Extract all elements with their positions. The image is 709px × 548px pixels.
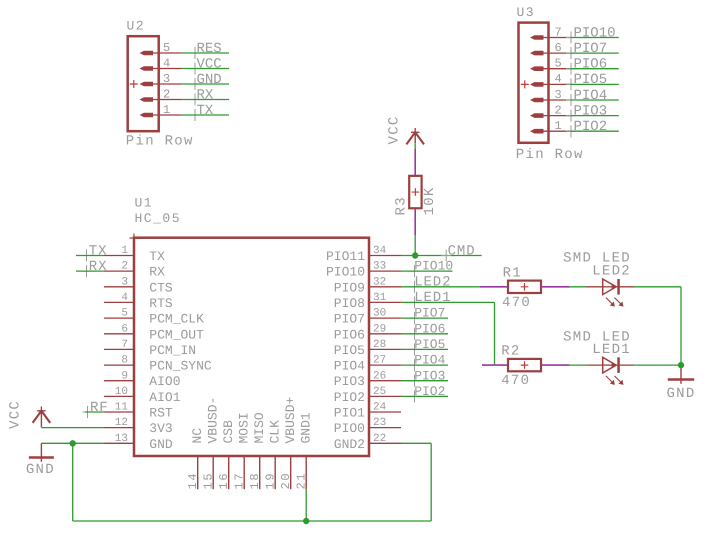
U3 pin 5 — [540, 68, 571, 70]
svg-text:2: 2 — [555, 103, 562, 117]
label cross VCC — [190, 63, 200, 75]
svg-text:9: 9 — [121, 370, 128, 382]
U1 bottom pin 16 — [228, 456, 230, 489]
label cross PIO6 — [566, 63, 576, 75]
net wire PIO5 — [571, 83, 619, 85]
U3 pin 1 — [540, 130, 571, 132]
svg-text:TX: TX — [89, 243, 108, 259]
U2 pin 1 — [150, 114, 181, 116]
svg-text:7: 7 — [121, 339, 128, 351]
net wire PIO4 — [401, 364, 448, 366]
svg-text:33: 33 — [373, 261, 386, 273]
svg-text:PIO7: PIO7 — [414, 306, 445, 321]
label cross PIO10 — [410, 265, 420, 277]
label cross TX — [82, 250, 92, 262]
LED D-LED1 — [602, 364, 618, 366]
U1 right pin 30 — [369, 317, 401, 319]
U1 left pin 7 — [104, 348, 134, 350]
svg-text:CLK: CLK — [268, 420, 283, 444]
U1 bottom pin 14 — [197, 456, 199, 489]
U1 bottom pin 19 — [274, 456, 276, 489]
U1 left pin 5 — [104, 317, 134, 319]
connector U2 — [128, 36, 159, 131]
label cross PIO5 — [410, 343, 420, 355]
wire pin overlap above R3 — [414, 149, 416, 176]
junction left GND — [70, 440, 76, 446]
svg-text:CSB: CSB — [221, 420, 236, 444]
svg-text:6: 6 — [555, 41, 562, 55]
svg-text:20: 20 — [279, 472, 293, 490]
wire pin overlap left of R1 — [480, 286, 508, 288]
svg-text:12: 12 — [115, 417, 128, 429]
svg-text:PCM_OUT: PCM_OUT — [149, 327, 204, 342]
svg-text:19: 19 — [264, 472, 278, 490]
svg-text:LED2: LED2 — [592, 263, 631, 279]
wire R2 to LED1 — [570, 364, 587, 366]
svg-text:1: 1 — [121, 245, 128, 257]
svg-text:34: 34 — [373, 245, 387, 257]
LED2 cathode pin — [617, 286, 634, 288]
svg-text:Pin Row: Pin Row — [126, 134, 194, 150]
net wire RF — [85, 411, 104, 413]
U1 left pin 2 — [104, 270, 134, 272]
svg-text:3: 3 — [555, 88, 562, 102]
U1 right pin 34 — [369, 255, 401, 257]
svg-text:3V3: 3V3 — [149, 421, 172, 436]
label cross PIO7 — [566, 47, 576, 59]
U3 pin 7 — [540, 37, 571, 39]
svg-text:2: 2 — [121, 261, 128, 273]
net wire PIO6 — [571, 68, 619, 70]
net wire PIO2 — [571, 130, 619, 132]
svg-text:29: 29 — [373, 323, 386, 335]
svg-text:470: 470 — [501, 373, 530, 389]
net wire PIO7 — [571, 52, 619, 54]
label cross PIO3 — [566, 110, 576, 122]
svg-text:PIO2: PIO2 — [334, 390, 365, 405]
U1 right pin 31 — [369, 301, 401, 303]
svg-text:PIO4: PIO4 — [574, 88, 608, 104]
junction bottom pin21 — [303, 518, 309, 524]
wire pin overlap right of R1 — [541, 286, 570, 288]
svg-text:PIO11: PIO11 — [326, 249, 365, 264]
svg-text:VBUSD-: VBUSD- — [206, 397, 221, 444]
wire R3 to CMD — [414, 235, 416, 256]
label cross GND — [190, 78, 200, 90]
wire GND down left — [72, 443, 74, 521]
svg-text:30: 30 — [373, 308, 386, 320]
VCC supply symbol at R3 — [411, 128, 419, 136]
junction CMD / R3 — [412, 252, 418, 258]
svg-text:HC_05: HC_05 — [135, 211, 182, 226]
svg-text:VCC: VCC — [8, 400, 24, 429]
U1 bottom pin 18 — [259, 456, 261, 489]
svg-text:RTS: RTS — [149, 296, 173, 311]
svg-text:PIO2: PIO2 — [414, 384, 445, 399]
svg-text:11: 11 — [115, 402, 129, 414]
svg-text:2: 2 — [163, 87, 170, 101]
U1 left pin 1 — [104, 255, 134, 257]
wire pin21 GND1 down — [305, 489, 307, 521]
U1 right pin 24 — [369, 411, 401, 413]
svg-text:26: 26 — [373, 370, 386, 382]
svg-text:VBUSD+: VBUSD+ — [283, 396, 298, 443]
wire R1 to LED2 — [570, 286, 587, 288]
U1 right pin 32 — [369, 286, 401, 288]
net wire VCC — [181, 68, 229, 70]
label cross PIO2 — [410, 390, 420, 402]
net wire GND to pin 13 — [41, 442, 104, 444]
net wire TX — [181, 114, 229, 116]
U1 bottom pin 15 — [212, 456, 214, 489]
wire rail LED2 to LED1 — [680, 287, 682, 365]
label cross PIO4 — [566, 94, 576, 106]
label cross RX — [82, 265, 92, 277]
svg-text:4: 4 — [163, 56, 170, 70]
svg-text:7: 7 — [555, 25, 562, 39]
svg-text:AIO1: AIO1 — [149, 390, 180, 405]
svg-text:TX: TX — [149, 249, 165, 264]
U1 left pin 3 — [104, 286, 134, 288]
U2 pin 3 — [150, 83, 181, 85]
svg-text:1: 1 — [163, 103, 170, 117]
svg-text:PIO3: PIO3 — [574, 103, 608, 119]
svg-text:GND2: GND2 — [334, 437, 365, 452]
svg-text:PCM_IN: PCM_IN — [149, 343, 196, 358]
svg-text:LED2: LED2 — [414, 274, 451, 290]
svg-text:AIO0: AIO0 — [149, 374, 180, 389]
wire pin overlap right of R2 — [541, 364, 570, 366]
label cross LED1 — [410, 296, 420, 308]
svg-text:18: 18 — [248, 472, 262, 490]
U1 left pin 6 — [104, 333, 134, 335]
svg-text:PIO1: PIO1 — [334, 406, 365, 421]
U1 left pin 9 — [104, 380, 134, 382]
svg-text:R1: R1 — [503, 265, 522, 281]
wire pin overlap below R3 — [414, 208, 416, 235]
svg-text:4: 4 — [555, 72, 562, 86]
U1 right pin 23 — [369, 427, 401, 429]
U1 left pin 8 — [104, 364, 134, 366]
wire LED1 down to R2 — [494, 302, 496, 365]
U3 origin cross — [521, 80, 529, 88]
svg-text:17: 17 — [233, 472, 247, 490]
svg-text:PIO0: PIO0 — [334, 421, 365, 436]
svg-text:GND: GND — [197, 72, 222, 88]
U1 right pin 29 — [369, 333, 401, 335]
svg-text:MISO: MISO — [252, 412, 267, 443]
U1 right pin 27 — [369, 364, 401, 366]
net wire PIO5 — [401, 348, 448, 350]
wire VCC stem to net — [40, 426, 42, 428]
svg-text:PIO4: PIO4 — [334, 359, 365, 374]
svg-text:LED1: LED1 — [414, 290, 451, 306]
U1 bottom pin 21 — [305, 456, 307, 489]
net wire LED2 — [401, 286, 480, 288]
junction right GND — [678, 362, 684, 368]
U1 left pin 12 — [104, 427, 134, 429]
svg-text:31: 31 — [373, 292, 387, 304]
wire pin overlap left of R2 — [482, 364, 508, 366]
net wire RX — [76, 270, 104, 272]
net wire RX — [181, 99, 229, 101]
svg-text:10: 10 — [115, 386, 128, 398]
net wire VCC to pin 12 — [41, 427, 104, 429]
svg-text:5: 5 — [555, 57, 562, 71]
U1 left pin 10 — [104, 395, 134, 397]
label cross PIO3 — [410, 375, 420, 387]
label cross LED2 — [410, 281, 420, 293]
wire rail to GND — [680, 365, 682, 370]
net wire PIO7 — [401, 317, 448, 319]
svg-text:8: 8 — [121, 355, 128, 367]
svg-text:14: 14 — [186, 472, 200, 490]
U1 right pin 22 — [369, 442, 401, 444]
label cross TX — [190, 109, 200, 121]
net wire PIO10 — [571, 37, 619, 39]
svg-text:470: 470 — [502, 295, 531, 311]
svg-text:25: 25 — [373, 386, 386, 398]
svg-text:MOSI: MOSI — [237, 412, 252, 443]
U2 origin cross — [130, 80, 138, 88]
net wire PIO10 — [401, 270, 453, 272]
U3 pin 2 — [540, 115, 571, 117]
svg-text:3: 3 — [163, 72, 170, 86]
svg-text:1: 1 — [555, 119, 562, 133]
U1 right pin 25 — [369, 395, 401, 397]
svg-text:VCC: VCC — [197, 56, 222, 72]
svg-text:PIO10: PIO10 — [326, 265, 365, 280]
U3 pin 3 — [540, 99, 571, 101]
svg-text:5: 5 — [121, 308, 128, 320]
svg-text:RF: RF — [90, 400, 109, 416]
net wire CMD — [401, 255, 482, 257]
svg-text:PIO5: PIO5 — [414, 337, 445, 352]
svg-text:NC: NC — [190, 428, 205, 444]
svg-text:PIO9: PIO9 — [334, 280, 365, 295]
svg-text:GND1: GND1 — [299, 412, 314, 443]
svg-text:10K: 10K — [422, 186, 438, 215]
label cross PIO7 — [410, 312, 420, 324]
U1 right pin 26 — [369, 380, 401, 382]
net wire PIO6 — [401, 333, 448, 335]
svg-text:PIO7: PIO7 — [334, 312, 365, 327]
net wire pin22 GND2 — [401, 442, 431, 444]
label cross PIO10 — [566, 32, 576, 44]
label cross PIO2 — [566, 125, 576, 137]
svg-text:3: 3 — [121, 276, 128, 288]
svg-text:PIO7: PIO7 — [574, 41, 608, 57]
svg-text:U2: U2 — [127, 19, 146, 34]
svg-text:PIO5: PIO5 — [334, 343, 365, 358]
svg-text:GND: GND — [149, 437, 173, 452]
net wire PIO3 — [571, 115, 619, 117]
svg-text:PIO6: PIO6 — [334, 327, 365, 342]
label cross PIO4 — [410, 359, 420, 371]
svg-text:32: 32 — [373, 276, 386, 288]
net wire TX — [76, 255, 104, 257]
U2 pin 2 — [150, 99, 181, 101]
U2 pin 4 — [150, 68, 181, 70]
svg-text:RES: RES — [197, 41, 222, 57]
label cross CMD — [441, 250, 451, 262]
U1 right pin 28 — [369, 348, 401, 350]
svg-text:24: 24 — [373, 402, 387, 414]
label cross PIO6 — [410, 328, 420, 340]
svg-text:R3: R3 — [394, 196, 410, 215]
svg-text:16: 16 — [217, 472, 231, 490]
U1 right pin 33 — [369, 270, 401, 272]
U1 bottom pin 17 — [243, 456, 245, 489]
resistor R1 — [508, 281, 541, 293]
bottom GND bus wire — [73, 520, 432, 522]
svg-text:Pin Row: Pin Row — [516, 147, 584, 163]
net wire LED1 — [401, 301, 495, 303]
label cross RF — [83, 406, 93, 418]
U1 left pin 13 — [104, 442, 134, 444]
net wire RES — [181, 52, 229, 54]
svg-text:TX: TX — [197, 103, 214, 119]
svg-text:PIO5: PIO5 — [574, 72, 608, 88]
svg-text:6: 6 — [121, 323, 128, 335]
U3 pin 6 — [540, 52, 571, 54]
svg-text:PCN_SYNC: PCN_SYNC — [149, 359, 212, 374]
GND symbol left — [29, 456, 54, 459]
svg-text:PCM_CLK: PCM_CLK — [149, 312, 204, 327]
LED1 cathode pin — [617, 364, 634, 366]
svg-text:CMD: CMD — [448, 243, 476, 259]
net wire PIO4 — [571, 99, 619, 101]
net wire PIO2 — [401, 395, 448, 397]
svg-text:PIO2: PIO2 — [574, 119, 608, 135]
svg-text:22: 22 — [373, 433, 386, 445]
svg-text:28: 28 — [373, 339, 386, 351]
svg-text:RX: RX — [197, 87, 214, 103]
svg-text:VCC: VCC — [387, 115, 403, 144]
svg-text:RX: RX — [149, 265, 165, 280]
svg-text:5: 5 — [163, 41, 170, 55]
svg-text:21: 21 — [295, 472, 309, 490]
connector U3 — [519, 23, 549, 143]
LED D-LED2 — [602, 286, 618, 288]
svg-text:GND: GND — [666, 386, 695, 402]
svg-text:PIO6: PIO6 — [574, 57, 608, 73]
U1 bottom pin 20 — [290, 456, 292, 489]
svg-text:R2: R2 — [501, 344, 520, 360]
svg-text:PIO3: PIO3 — [334, 374, 365, 389]
resistor R2 — [508, 359, 541, 371]
svg-text:RST: RST — [149, 406, 173, 421]
net wire GND — [181, 83, 229, 85]
GND symbol right — [668, 378, 694, 381]
LED2 anode pin — [587, 286, 603, 288]
svg-text:U1: U1 — [135, 196, 154, 211]
label cross PIO5 — [566, 78, 576, 90]
label cross RES — [190, 47, 200, 59]
VCC supply symbol left — [37, 407, 45, 415]
svg-text:13: 13 — [115, 433, 128, 445]
wire LED2 to rail — [634, 286, 681, 288]
svg-text:U3: U3 — [517, 5, 536, 20]
svg-text:PIO10: PIO10 — [574, 25, 616, 41]
svg-text:PIO4: PIO4 — [414, 353, 445, 368]
U2 pin 5 — [150, 52, 181, 54]
svg-text:PIO10: PIO10 — [414, 259, 453, 274]
svg-text:LED1: LED1 — [592, 342, 631, 358]
label cross RX — [190, 94, 200, 106]
wire LED1 to rail — [634, 364, 681, 366]
svg-text:PIO3: PIO3 — [414, 368, 445, 383]
node R3 vertical net — [414, 144, 416, 150]
U3 pin 4 — [540, 83, 571, 85]
wire GND down right — [430, 443, 432, 521]
net wire PIO3 — [401, 380, 448, 382]
svg-text:27: 27 — [373, 355, 386, 367]
svg-text:15: 15 — [202, 472, 216, 490]
resistor R3 — [409, 176, 421, 208]
LED1 anode pin — [587, 364, 603, 366]
U1 origin cross — [130, 234, 139, 243]
IC U1 HC_05 box — [134, 238, 369, 456]
U1 left pin 4 — [104, 301, 134, 303]
svg-text:PIO8: PIO8 — [334, 296, 365, 311]
U1 left pin 11 — [104, 411, 134, 413]
svg-text:4: 4 — [121, 292, 128, 304]
svg-text:CTS: CTS — [149, 280, 173, 295]
svg-text:23: 23 — [373, 417, 386, 429]
svg-text:GND: GND — [26, 462, 55, 478]
svg-text:PIO6: PIO6 — [414, 321, 445, 336]
svg-text:RX: RX — [89, 259, 108, 275]
